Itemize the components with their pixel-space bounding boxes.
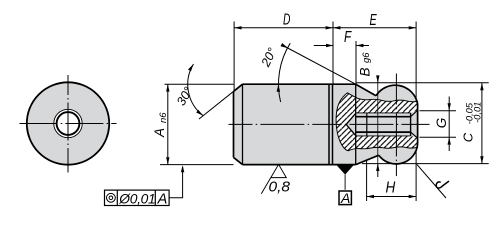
D left/right	[234, 26, 241, 29]
F arrows (outside pointing in)	[326, 44, 333, 47]
H ext lines	[366, 161, 368, 202]
shank step edges	[328, 84, 330, 164]
datum A box	[339, 191, 351, 205]
D/E ext lines	[233, 22, 235, 91]
G ext lines	[420, 110, 457, 112]
label C -0,01/-0,05	[460, 102, 482, 143]
F dim line with tails	[314, 45, 334, 47]
svg-text:A: A	[340, 190, 350, 206]
part outline strokes	[234, 84, 418, 164]
leader from frame to A dimension	[169, 167, 183, 198]
ball bottom lobe	[379, 144, 418, 164]
left face	[233, 91, 235, 157]
right flat face	[417, 104, 419, 144]
broken-out section zone (white + hatching)	[336, 93, 418, 151]
A dim ext lines	[165, 83, 234, 85]
B arrows	[376, 75, 379, 82]
svg-text:-0,05: -0,05	[465, 102, 475, 124]
svg-text:H: H	[386, 179, 397, 196]
concentricity tolerance frame	[105, 190, 170, 205]
svg-text:E: E	[370, 12, 378, 29]
label J (radius note glyph)	[436, 181, 448, 188]
svg-text:n6: n6	[158, 112, 169, 123]
svg-text:A: A	[152, 128, 167, 138]
C dim line	[481, 83, 483, 164]
thread major diameter thin lines	[356, 112, 411, 114]
C arrows	[480, 83, 483, 90]
D dim line	[234, 27, 416, 29]
H dim line	[367, 196, 417, 198]
svg-text:G: G	[434, 118, 449, 129]
bore chamfer edge	[410, 113, 412, 136]
center hole	[57, 112, 80, 135]
side view horizontal centerline	[229, 123, 341, 125]
thread minor / bore thick lines	[356, 116, 411, 118]
ball vertical centerline	[395, 74, 397, 177]
svg-text:0,8: 0,8	[269, 179, 291, 196]
top + bottom lines	[243, 84, 356, 164]
20 deg arc	[278, 43, 290, 102]
center hole chamfer circle	[54, 109, 82, 137]
A dim line	[167, 84, 169, 164]
svg-text:A: A	[157, 191, 168, 207]
30 deg arc	[188, 64, 203, 116]
left chamfers	[234, 84, 243, 164]
svg-text:g6: g6	[361, 52, 372, 63]
G arrows	[448, 103, 451, 110]
front view disc body	[27, 82, 109, 164]
B/C shared ext lines	[356, 82, 489, 84]
surface roughness symbol	[261, 164, 286, 193]
J leader	[417, 164, 446, 198]
arrowheads	[166, 26, 484, 198]
label G	[434, 118, 449, 129]
G dim line	[448, 97, 450, 152]
left chamfer edge line	[242, 84, 244, 164]
30 deg sloped line	[199, 84, 243, 119]
taper start edge	[355, 84, 357, 164]
20 deg sloped line	[283, 46, 356, 85]
label B g6	[358, 52, 373, 77]
bore strokes	[346, 110, 417, 137]
30 deg arc arrows	[188, 64, 194, 71]
svg-text:Ø0,01: Ø0,01	[118, 191, 155, 206]
A top/bottom	[166, 84, 169, 91]
taper cone edges	[356, 84, 379, 164]
datum A triangle	[336, 165, 354, 175]
ball top lobe	[376, 85, 418, 104]
label 30 deg	[174, 85, 196, 108]
svg-text:F: F	[344, 29, 352, 46]
bore entry chamfer	[411, 110, 418, 116]
F ext line right	[355, 41, 357, 84]
threaded bore void (gray)	[346, 110, 417, 137]
label 20 deg	[258, 46, 279, 70]
svg-text:C: C	[460, 132, 475, 142]
drill cone	[346, 113, 356, 136]
horizontal centerline	[20, 123, 117, 125]
svg-text:30°: 30°	[174, 85, 196, 108]
thread end line	[366, 113, 368, 136]
datum A stem	[344, 175, 346, 190]
vertical centerline	[67, 75, 69, 173]
label A n6	[152, 112, 169, 138]
svg-text:20°: 20°	[258, 46, 279, 70]
H arrows	[367, 195, 374, 198]
20 deg arc arrows	[277, 84, 281, 92]
E left/right	[333, 26, 340, 29]
svg-text:B: B	[358, 67, 373, 76]
part body gray silhouette	[234, 84, 418, 164]
svg-text:D: D	[283, 12, 290, 29]
B dim line	[377, 77, 379, 83]
